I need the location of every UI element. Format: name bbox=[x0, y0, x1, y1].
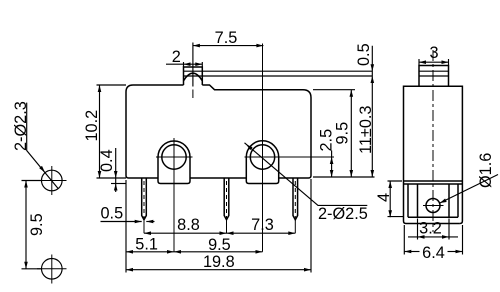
side view: flange second line bbox=[404, 183, 463, 185]
H2 crosshair horizontal extended right bbox=[245, 156, 335, 158]
svg-text:2: 2 bbox=[172, 48, 181, 66]
dim 2.5 arrow down bbox=[330, 170, 334, 177]
mounting hole M1 bbox=[42, 170, 63, 191]
leader 2-Ø2.5 diagonal bbox=[245, 143, 368, 206]
dim 6.4 dimension line right bbox=[448, 251, 463, 253]
svg-text:0.5: 0.5 bbox=[355, 43, 373, 66]
T2 extension to dim bbox=[226, 220, 228, 233]
side view: flange bottom bbox=[406, 223, 460, 225]
dim 4 arrow up bbox=[388, 181, 392, 188]
dim 10.2 arrow up bbox=[98, 85, 102, 92]
svg-text:9.5: 9.5 bbox=[28, 213, 46, 236]
body outline top-right and right side bbox=[202, 85, 311, 178]
dim 7.3 arrow left bbox=[227, 231, 234, 235]
plunger free-position line upper bbox=[184, 70, 373, 72]
plunger centerline through button bbox=[192, 90, 194, 99]
svg-text:7.3: 7.3 bbox=[251, 216, 274, 234]
dim 5.1 arrow left bbox=[126, 250, 133, 254]
dim 0.5/11 arrow up bbox=[371, 76, 375, 83]
dim 19.8 dimension line bbox=[126, 269, 311, 271]
dim 8.8/7.3 dimension line bbox=[144, 232, 295, 234]
plunger dome arc bbox=[184, 73, 203, 81]
body right edge extension down bbox=[310, 179, 312, 273]
right side dims: extension of body bottom bbox=[313, 176, 375, 178]
side view: main body bbox=[404, 86, 463, 181]
dim 10.2 arrow down bbox=[98, 171, 102, 178]
dim 9.5 arrow down bbox=[24, 262, 28, 269]
dim 0.4 boss extension bbox=[111, 183, 126, 185]
dim 3.2 arrow right bbox=[442, 235, 449, 239]
leader arrow at hole M1 bbox=[39, 166, 45, 173]
M1 crosshair vertical bbox=[51, 166, 53, 195]
T3 centerline bbox=[294, 181, 296, 218]
svg-text:5.1: 5.1 bbox=[135, 236, 158, 254]
svg-text:6.4: 6.4 bbox=[422, 244, 445, 262]
plunger centerline extension bbox=[192, 43, 194, 87]
dim 0.4 arrow up bbox=[114, 184, 118, 191]
dim 4 dimension line bbox=[389, 181, 391, 217]
svg-text:19.8: 19.8 bbox=[203, 253, 235, 271]
dim 3 dimension line bbox=[419, 61, 449, 63]
dim 0.5/11 shared dimension line bbox=[371, 46, 373, 177]
side view: inner step verticals bbox=[408, 184, 458, 217]
terminal T1 bbox=[142, 178, 147, 220]
svg-text:7.5: 7.5 bbox=[215, 29, 238, 47]
extension of stepped top bbox=[313, 89, 355, 91]
svg-text:3: 3 bbox=[429, 44, 438, 62]
dim 9.5 arrow left bbox=[174, 250, 181, 254]
boss 2 outline bbox=[246, 141, 278, 184]
dim 6.4 extension lines bbox=[404, 225, 462, 255]
dim 6.4 arrow right bbox=[456, 250, 463, 254]
dim 7.5 arrow left bbox=[193, 44, 200, 48]
side view centerline bbox=[432, 50, 434, 232]
H1 crosshair horizontal bbox=[156, 156, 193, 158]
dim 9.5 hole pitch: dimension line bbox=[25, 181, 27, 269]
side view: plunger button bbox=[419, 66, 449, 87]
dim 5.1 arrow right bbox=[167, 250, 174, 254]
side view: slot verticals bbox=[418, 184, 450, 217]
T3 extension to dim bbox=[294, 220, 296, 233]
T1 centerline bbox=[143, 181, 145, 218]
H2 centerline vertical long bbox=[262, 44, 264, 252]
svg-text:3.2: 3.2 bbox=[419, 220, 442, 238]
boss 1 outline bbox=[158, 141, 190, 184]
dim 10.2 dimension line bbox=[99, 85, 101, 178]
body bottom-left segment and left side bbox=[126, 92, 158, 178]
dim 9.5 arrow up bbox=[24, 181, 28, 188]
body left edge extension down bbox=[125, 180, 127, 273]
M1 crosshair horizontal bbox=[37, 180, 67, 182]
dim 2.5 arrow up bbox=[330, 157, 334, 164]
dim 10.2 extension bottom bbox=[97, 177, 127, 179]
H1 centerline vertical bbox=[173, 138, 175, 252]
svg-text:9.5: 9.5 bbox=[334, 122, 352, 145]
dim 3.2 extension lines bbox=[418, 219, 450, 240]
dim 3.2 arrow left bbox=[418, 235, 425, 239]
side view: flange top line bbox=[404, 180, 463, 182]
side hole crosshair bbox=[423, 205, 444, 207]
dim 0.5 underline leader bbox=[101, 221, 142, 223]
dim 4 extension lines bbox=[388, 181, 404, 217]
plunger free-position line lower bbox=[184, 75, 373, 77]
dim 10.2 extension top bbox=[97, 84, 127, 86]
dim 7.5 dimension line bbox=[193, 45, 264, 47]
dim 2.5 dimension line bbox=[331, 151, 333, 178]
svg-text:4: 4 bbox=[375, 193, 393, 202]
leader Ø1.6 bbox=[440, 175, 498, 204]
mounting hole M2 bbox=[42, 259, 63, 280]
side view: flange sides bbox=[404, 181, 463, 224]
dim 2 dimension line bbox=[166, 63, 202, 65]
side view: inner step bottom bbox=[408, 216, 458, 218]
hole H2 Ø2.5 bbox=[250, 145, 274, 169]
dim 2 extension overshoots bbox=[184, 62, 203, 67]
dim 0.4 dimension line bbox=[115, 148, 117, 192]
dim 9.5 hole pitch: extension lines bbox=[22, 181, 42, 269]
T2 centerline bbox=[226, 181, 228, 218]
side hole Ø1.6 bbox=[426, 199, 440, 213]
dim 2 arrow right-end bbox=[195, 62, 202, 66]
dim 0.5 arrow right-pointing bbox=[135, 220, 142, 224]
svg-text:Ø1.6: Ø1.6 bbox=[477, 153, 495, 188]
dim 9.5 arrow right bbox=[256, 250, 263, 254]
T1 extension to dim bbox=[143, 220, 145, 233]
dim 8.8 arrow left bbox=[144, 231, 151, 235]
leader 2-Ø2.5 arrow bbox=[246, 144, 253, 150]
M2 crosshair vertical bbox=[51, 255, 53, 284]
dim 5.1/9.5 dimension line bbox=[126, 251, 263, 253]
dim 19.8 arrow left bbox=[126, 268, 133, 272]
dim 0.5 arrow down bbox=[371, 64, 375, 71]
dim 9.5 right arrow up bbox=[350, 90, 354, 97]
dim 9.5 right arrow down bbox=[350, 170, 354, 177]
dim 11 arrow down bbox=[371, 170, 375, 177]
svg-text:10.2: 10.2 bbox=[83, 110, 101, 142]
svg-text:0.4: 0.4 bbox=[98, 149, 116, 172]
M2 crosshair horizontal bbox=[37, 268, 67, 270]
dim 0.4 arrow down bbox=[114, 171, 118, 178]
leader Ø1.6 arrow bbox=[440, 199, 447, 204]
svg-text:0.5: 0.5 bbox=[101, 205, 124, 223]
svg-text:9.5: 9.5 bbox=[208, 236, 231, 254]
hole H1 Ø2.5 bbox=[162, 145, 186, 169]
side button inner line lower bbox=[419, 75, 449, 77]
plunger button front bbox=[184, 67, 203, 85]
dim 4 arrow down bbox=[388, 210, 392, 217]
dim 0.5 arrow left-pointing bbox=[146, 220, 153, 224]
front view: switch body outline top-left bbox=[126, 85, 184, 92]
dim 3 arrow left bbox=[419, 60, 426, 64]
dim 3 arrow right bbox=[442, 60, 449, 64]
dim 7.3 arrow right bbox=[288, 231, 295, 235]
svg-text:2-Ø2.5: 2-Ø2.5 bbox=[318, 205, 368, 223]
body bottom segment between bosses bbox=[190, 177, 246, 179]
terminal T2 bbox=[224, 178, 229, 220]
dim 2 arrow left-end bbox=[184, 62, 191, 66]
side button inner line upper bbox=[419, 70, 449, 72]
terminal T3 bbox=[293, 178, 298, 220]
dim 0.5 tail right bbox=[146, 221, 154, 223]
leader shoulder for 2-Ø2.3 bbox=[27, 103, 59, 189]
dim 7.5 arrow right bbox=[256, 44, 263, 48]
dim 6.4 arrow left bbox=[404, 250, 411, 254]
svg-text:11±0.3: 11±0.3 bbox=[357, 106, 375, 154]
dim 9.5 right dimension line bbox=[350, 90, 352, 177]
dim 19.8 arrow right bbox=[304, 268, 311, 272]
svg-text:8.8: 8.8 bbox=[177, 216, 200, 234]
dim 6.4 dimension line left bbox=[404, 251, 419, 253]
dim 3 extension lines bbox=[419, 59, 449, 66]
dim 3.2 dimension line bbox=[408, 236, 458, 238]
dim 8.8 arrow right bbox=[220, 231, 227, 235]
